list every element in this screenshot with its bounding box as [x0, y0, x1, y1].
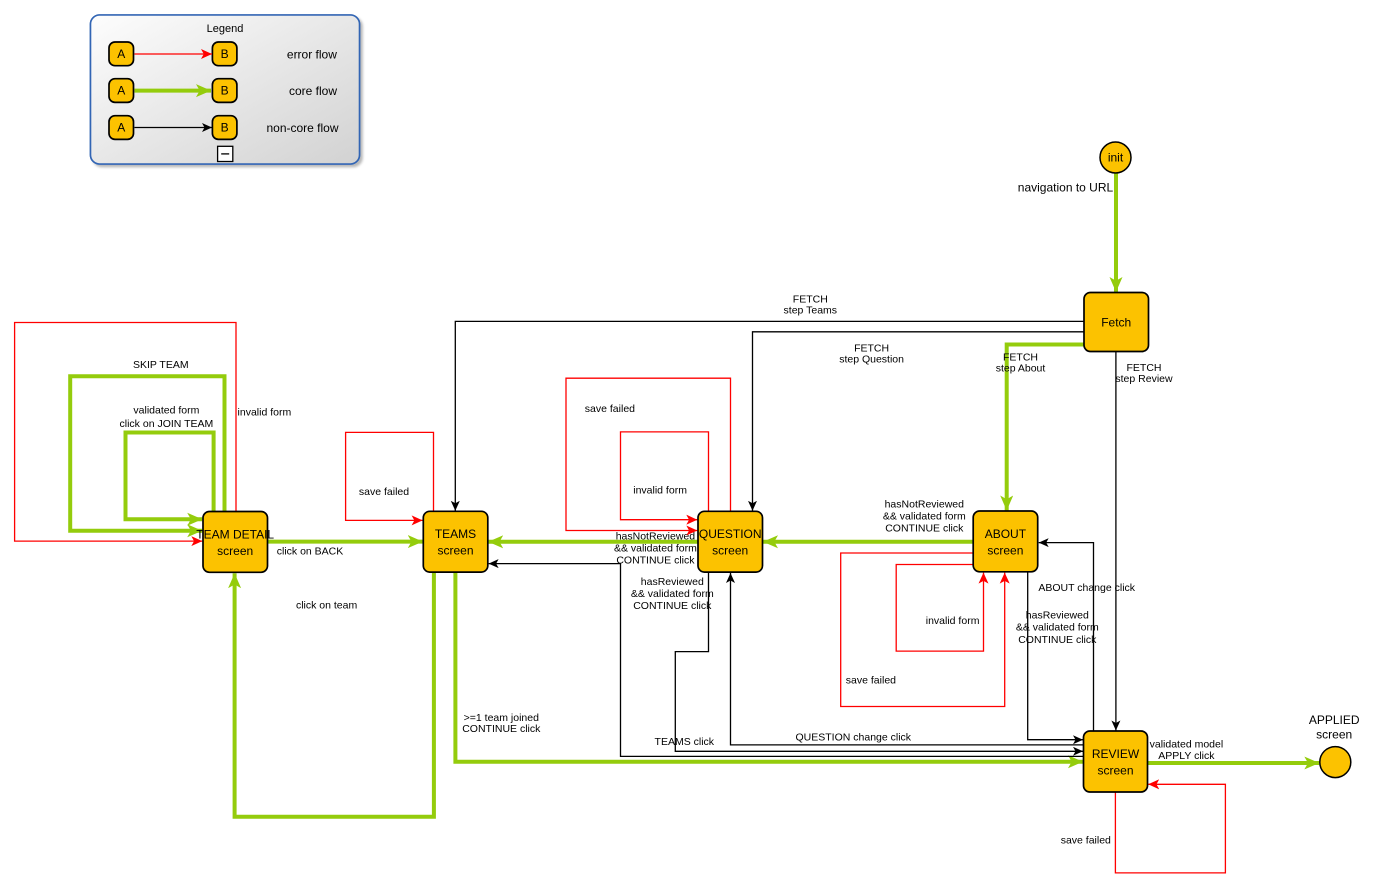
legend non-core flow arrow	[135, 127, 213, 129]
legend node B1	[212, 42, 237, 66]
svg-text:APPLIED: APPLIED	[1309, 713, 1360, 727]
edge QUESTION to TEAMS : hasNotReviewed && validated form CONTINUE click	[488, 540, 698, 544]
edge REVIEW to APPLIED : validated model APPLY click	[1148, 761, 1320, 765]
edge ABOUT to REVIEW : hasReviewed && validated form CONTINUE click	[1028, 572, 1083, 740]
legend node B3	[212, 116, 237, 140]
svg-text:error flow: error flow	[287, 48, 337, 62]
edge TEAM DETAIL self loop : SKIP TEAM	[70, 376, 224, 531]
svg-text:screen: screen	[1316, 727, 1352, 741]
svg-text:save failed: save failed	[359, 486, 409, 498]
svg-text:&& validated form: && validated form	[1016, 622, 1099, 634]
legend core flow arrow	[135, 89, 212, 93]
edge TEAMS self loop : save failed	[346, 432, 434, 520]
svg-text:validated form: validated form	[133, 405, 199, 417]
edge TEAM DETAIL to TEAMS : click on BACK	[268, 540, 423, 544]
edge TEAMS to TEAM DETAIL : click on team	[235, 572, 434, 817]
svg-text:&& validated form: && validated form	[883, 510, 966, 522]
edge TEAM DETAIL self loop : invalid form	[15, 323, 236, 542]
edge Fetch to ABOUT : FETCH step About	[1007, 345, 1084, 511]
svg-text:FETCH: FETCH	[793, 294, 828, 306]
svg-text:screen: screen	[987, 543, 1023, 557]
svg-text:hasNotReviewed: hasNotReviewed	[885, 498, 965, 510]
svg-text:non-core flow: non-core flow	[266, 121, 338, 135]
svg-text:invalid form: invalid form	[926, 615, 980, 627]
svg-text:init: init	[1108, 151, 1124, 165]
legend node A2	[109, 79, 134, 103]
svg-text:B: B	[221, 84, 229, 98]
edge Fetch to TEAMS : FETCH step Teams	[455, 321, 1084, 510]
svg-text:A: A	[117, 121, 125, 135]
svg-text:hasReviewed: hasReviewed	[1026, 609, 1089, 621]
svg-text:QUESTION change click: QUESTION change click	[796, 731, 912, 743]
node Fetch	[1084, 293, 1149, 352]
svg-text:invalid form: invalid form	[633, 485, 687, 497]
node TEAMS screen	[423, 511, 488, 572]
edge REVIEW to QUESTION : QUESTION change click	[731, 573, 1084, 745]
edge Fetch to QUESTION : FETCH step Question	[753, 332, 1085, 511]
edge QUESTION self loop : invalid form	[621, 432, 709, 520]
edge TEAM DETAIL self loop : validated form click on JOIN TEAM	[126, 433, 214, 520]
svg-text:navigation to URL: navigation to URL	[1018, 181, 1114, 195]
edge ABOUT self loop : invalid form	[896, 565, 983, 652]
svg-text:hasReviewed: hasReviewed	[641, 576, 704, 588]
svg-text:FETCH: FETCH	[1127, 362, 1162, 374]
node QUESTION screen	[698, 511, 763, 572]
svg-text:QUESTION: QUESTION	[699, 527, 762, 541]
legend node B2	[212, 79, 237, 103]
svg-text:TEAMS: TEAMS	[435, 527, 476, 541]
svg-text:screen: screen	[217, 544, 253, 558]
svg-text:invalid form: invalid form	[238, 406, 292, 418]
svg-text:click on JOIN TEAM: click on JOIN TEAM	[120, 418, 214, 430]
svg-text:Legend: Legend	[207, 23, 244, 35]
svg-text:CONTINUE click: CONTINUE click	[633, 600, 712, 612]
svg-text:screen: screen	[437, 544, 473, 558]
svg-text:hasNotReviewed: hasNotReviewed	[616, 530, 696, 542]
node REVIEW screen	[1084, 731, 1148, 792]
edge TEAMS to REVIEW : >=1 team joined CONTINUE click	[455, 572, 1083, 762]
node init	[1100, 142, 1131, 173]
legend node A1	[109, 42, 134, 66]
svg-text:CONTINUE click: CONTINUE click	[462, 723, 541, 735]
svg-text:step Review: step Review	[1115, 373, 1173, 385]
edge REVIEW to TEAMS : TEAMS click	[489, 564, 1084, 757]
svg-text:REVIEW: REVIEW	[1092, 747, 1140, 761]
svg-text:validated model: validated model	[1150, 739, 1224, 751]
svg-text:screen: screen	[712, 544, 748, 558]
svg-text:&& validated form: && validated form	[631, 588, 714, 600]
svg-text:click on BACK: click on BACK	[277, 546, 344, 558]
svg-text:click on team: click on team	[296, 600, 358, 612]
svg-text:TEAM DETAIL: TEAM DETAIL	[196, 527, 274, 541]
svg-text:step Question: step Question	[839, 354, 904, 366]
svg-text:core flow: core flow	[289, 84, 337, 98]
svg-text:>=1 team joined: >=1 team joined	[464, 712, 539, 724]
svg-text:B: B	[221, 47, 229, 61]
svg-text:SKIP TEAM: SKIP TEAM	[133, 359, 189, 371]
legend error flow arrow	[135, 53, 213, 55]
svg-text:CONTINUE click: CONTINUE click	[1018, 634, 1097, 646]
edge init to Fetch : navigation to URL	[1114, 173, 1118, 292]
legend node A3	[109, 116, 134, 140]
edge QUESTION to REVIEW : hasReviewed && validated form CONTINUE click	[675, 572, 1083, 751]
svg-text:step Teams: step Teams	[784, 305, 838, 317]
node TEAM DETAIL screen	[196, 512, 274, 573]
svg-text:APPLY click: APPLY click	[1158, 750, 1215, 762]
edge ABOUT self loop : save failed	[841, 553, 1005, 707]
svg-text:screen: screen	[1097, 763, 1133, 777]
edge Fetch to REVIEW : FETCH step Review	[1115, 352, 1117, 731]
svg-text:save failed: save failed	[585, 403, 635, 415]
svg-text:B: B	[221, 121, 229, 135]
svg-text:ABOUT: ABOUT	[985, 527, 1027, 541]
svg-text:Fetch: Fetch	[1101, 315, 1131, 329]
legend collapse button	[218, 146, 233, 161]
svg-text:A: A	[117, 84, 125, 98]
edge REVIEW self loop : save failed	[1115, 784, 1225, 873]
legend box	[91, 15, 360, 164]
edge REVIEW to ABOUT : ABOUT change click	[1039, 543, 1094, 731]
svg-text:CONTINUE click: CONTINUE click	[616, 555, 695, 567]
node APPLIED screen	[1309, 713, 1360, 778]
svg-text:FETCH: FETCH	[854, 342, 889, 354]
svg-text:TEAMS click: TEAMS click	[655, 736, 715, 748]
svg-text:A: A	[117, 47, 125, 61]
svg-text:ABOUT change click: ABOUT change click	[1038, 582, 1135, 594]
svg-text:save failed: save failed	[1061, 835, 1111, 847]
edge QUESTION self loop : save failed	[566, 378, 731, 530]
svg-text:save failed: save failed	[846, 674, 896, 686]
edge ABOUT to QUESTION : hasNotReviewed && validated form CONTINUE click	[763, 540, 973, 544]
svg-text:step About: step About	[996, 363, 1046, 375]
svg-text:CONTINUE click: CONTINUE click	[885, 522, 964, 534]
node ABOUT screen	[973, 511, 1037, 572]
svg-text:&& validated form: && validated form	[614, 543, 697, 555]
